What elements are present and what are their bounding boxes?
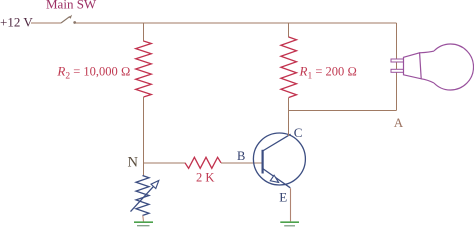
transistor base bar <box>262 150 264 174</box>
ground left <box>134 222 153 226</box>
transistor collector line <box>263 134 291 151</box>
variable resistor zigzag <box>136 176 149 216</box>
wire junction A horizontal to lamp branch <box>289 110 397 112</box>
wire R2 bottom to node N <box>143 97 145 163</box>
svg-text:R1 = 200 Ω: R1 = 200 Ω <box>299 64 357 82</box>
node A label <box>394 115 404 130</box>
node E label <box>279 189 287 204</box>
wire node N to 2K resistor <box>144 162 186 164</box>
svg-text:A: A <box>394 115 404 130</box>
resistor R1 zigzag <box>281 37 297 98</box>
wire top rail from switch to right corner <box>76 22 397 24</box>
resistor 2K zigzag <box>185 157 221 168</box>
lamp base <box>404 53 422 79</box>
wire node N down to variable resistor <box>143 163 145 176</box>
variable resistor arrow <box>131 181 159 212</box>
transistor emitter arrow <box>270 175 278 182</box>
label 2 K <box>196 171 214 185</box>
label R2 = 10,000 ohm <box>56 64 130 82</box>
transistor Q1 circle <box>253 133 305 185</box>
node B label <box>237 149 245 163</box>
wire top of R1 branch <box>288 23 290 38</box>
lamp pin 1 <box>391 59 404 62</box>
wire emitter to ground <box>290 188 292 221</box>
svg-text:2 K: 2 K <box>196 171 214 185</box>
node C label <box>294 125 303 140</box>
switch right contact dot <box>73 21 76 24</box>
wire top of R2 branch <box>143 23 145 42</box>
label R1 = 200 ohm <box>299 64 357 82</box>
node +12 V supply label <box>0 14 33 29</box>
wire variable resistor to ground <box>142 216 145 222</box>
svg-text:+12 V: +12 V <box>0 14 33 29</box>
lamp pin 2 <box>391 69 404 72</box>
svg-text:Main SW: Main SW <box>46 0 97 12</box>
wire R1 bottom to collector junction <box>288 98 290 137</box>
lamp bulb <box>420 44 474 90</box>
svg-text:B: B <box>237 149 245 163</box>
node N label <box>128 155 139 171</box>
transistor emitter line <box>263 169 291 188</box>
wire 2K to transistor base <box>221 162 262 164</box>
wire from +12V to switch <box>31 22 61 24</box>
svg-text:R2 = 10,000 Ω: R2 = 10,000 Ω <box>56 64 130 82</box>
label Main SW <box>46 0 97 12</box>
ground right <box>280 222 299 226</box>
svg-text:N: N <box>128 155 139 171</box>
svg-text:E: E <box>279 189 287 204</box>
resistor R2 zigzag <box>136 41 152 97</box>
svg-text:C: C <box>294 125 303 140</box>
switch Main SW lever <box>61 15 72 23</box>
wire right vertical lamp branch <box>396 23 398 110</box>
